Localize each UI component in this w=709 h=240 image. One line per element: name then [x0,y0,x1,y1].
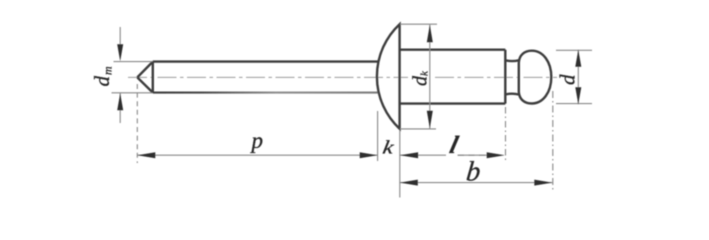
arrow dk top (points up) [427,25,433,43]
extension line dm bottom [112,92,153,94]
extension line dome-left [377,111,379,161]
rivet body (sleeve) [400,50,506,104]
mandrel head [519,51,552,104]
wire: mandrel cone tip [137,62,153,93]
extension line d bottom [556,103,592,105]
dimension line l dashed mid part [458,154,487,156]
extension line dk top [400,23,437,25]
centerline (dash-dot axis of rivet) [128,76,557,78]
extension line p left (dashed, from cone apex) [136,84,138,163]
dimension line d vertical [577,50,579,104]
dimension line dk vertical [429,25,431,129]
extension line dm top [114,61,153,63]
extension line body-end (dash-dot) [505,107,507,160]
wire: mandrel rod top edge [153,60,378,62]
thin dimension / extension lines [112,24,593,197]
extension line b right (dash-dot) [552,91,554,190]
arrow p right / k outside-left (points right) [360,152,378,158]
arrow dm bottom (points up) [117,93,123,110]
dimension line dm vertical [119,27,121,123]
dimension line k/l tail and l line [400,154,488,156]
arrow k outside-right / l left (points left) [400,152,418,158]
rivet dome head [377,24,400,129]
extension line dk bottom [400,128,436,130]
arrow d bottom (points down) [575,87,581,104]
arrow b right (points right) [534,180,552,186]
dimension line b [400,182,553,184]
arrow l right (points right) [487,152,505,158]
arrowheads (slim filled darts) [117,25,581,186]
arrow dm top (points down) [117,44,123,61]
arrow b left (points left) [400,180,418,186]
arrow dk bottom (points down) [427,111,433,129]
extension line d top [556,49,592,51]
dimension line p [137,154,377,156]
wire: mandrel rod bottom edge [153,92,378,94]
mandrel neck [505,60,519,94]
svg-text:p: p [250,128,264,153]
svg-text:d: d [556,74,580,85]
arrow p left (points left) [137,152,155,158]
arrow d top (points up) [575,50,581,67]
extension line dome-face (long, down to b row) [399,131,401,198]
mandrel stem (thick outline) [137,24,551,129]
